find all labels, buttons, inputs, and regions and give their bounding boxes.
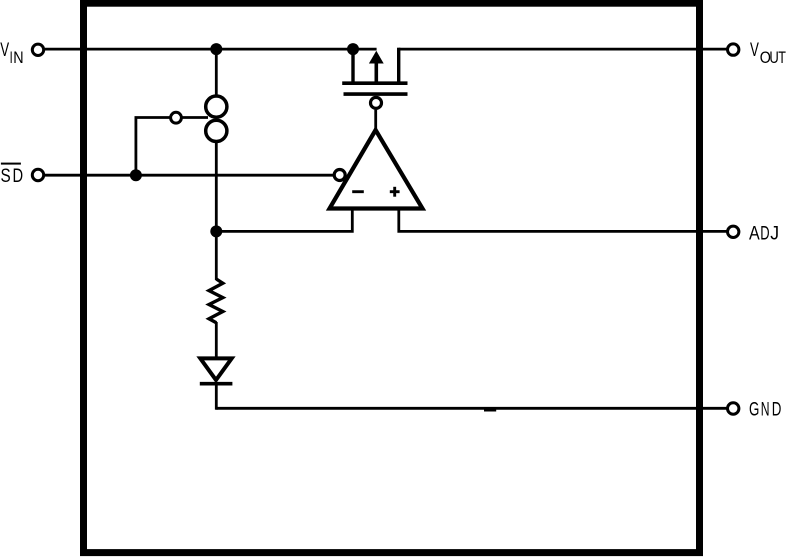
label VIN bbox=[0, 39, 23, 68]
bubble: current source control input bbox=[171, 112, 182, 123]
junction: pass transistor source on VIN rail bbox=[347, 43, 359, 55]
wire: op-amp non-inverting input to ADJ bbox=[399, 209, 728, 231]
resistor R1 bbox=[209, 279, 223, 323]
svg-text:N: N bbox=[761, 399, 770, 421]
terminal SD bbox=[32, 169, 43, 180]
svg-text:V: V bbox=[0, 39, 10, 61]
bubble: Q1 gate bbox=[371, 97, 382, 108]
junction: SD to current-source control branch bbox=[130, 169, 142, 181]
svg-text:N: N bbox=[13, 49, 23, 67]
label VOUT bbox=[750, 39, 786, 68]
IC boundary box bbox=[84, 3, 700, 552]
Q1 channel bar bbox=[342, 81, 407, 85]
Q1 gate bar bbox=[344, 92, 408, 96]
wire: current source control from SD branch bbox=[136, 118, 170, 176]
wire SD rail bbox=[45, 174, 333, 177]
minus sign bbox=[352, 190, 364, 193]
terminal ADJ bbox=[728, 226, 739, 237]
wire: bubble to current source bbox=[183, 116, 209, 119]
svg-text:D: D bbox=[772, 398, 782, 420]
wire: op-amp output to gate bbox=[374, 110, 377, 131]
Q1 right terminal bbox=[397, 48, 400, 83]
wire overlap notch on GND rail bbox=[484, 409, 496, 412]
wire: diode to GND rail bbox=[215, 384, 218, 410]
op-amp U1 (error amplifier) bbox=[330, 130, 423, 209]
PMOS pass transistor Q1 bbox=[342, 48, 407, 94]
svg-text:G: G bbox=[749, 398, 759, 420]
svg-text:D: D bbox=[13, 164, 24, 187]
svg-text:D: D bbox=[760, 222, 769, 244]
wire: feedback node to op-amp inverting input bbox=[216, 209, 352, 231]
label SD with overline bbox=[0, 163, 23, 187]
svg-text:U: U bbox=[769, 50, 778, 68]
junction: VIN to current-source branch bbox=[210, 43, 222, 55]
wire: current source down to feedback node bbox=[215, 142, 218, 232]
junction: feedback node bbox=[210, 225, 222, 237]
wire: feedback node down to resistor bbox=[215, 231, 218, 280]
current source I1 (current mirror circles) bbox=[206, 96, 227, 142]
diode D1 (bandgap reference) bbox=[200, 358, 233, 383]
svg-text:S: S bbox=[0, 164, 10, 186]
svg-text:V: V bbox=[750, 39, 760, 61]
svg-text:T: T bbox=[778, 49, 786, 67]
wire VIN rail bbox=[45, 48, 377, 51]
wire VOUT rail bbox=[399, 48, 728, 51]
wire GND rail bbox=[216, 407, 727, 410]
D1 cathode bar bbox=[200, 382, 233, 386]
terminal VIN bbox=[32, 44, 43, 55]
wire: VIN junction down to current source bbox=[215, 49, 218, 96]
label GND bbox=[749, 398, 781, 420]
Q1 left terminal bbox=[351, 49, 354, 83]
terminal GND bbox=[728, 403, 739, 414]
svg-text:I: I bbox=[10, 48, 13, 67]
plus sign bbox=[390, 190, 400, 193]
svg-text:J: J bbox=[770, 222, 779, 244]
svg-text:A: A bbox=[749, 222, 760, 244]
label ADJ bbox=[749, 222, 779, 245]
wire: resistor to diode bbox=[215, 322, 218, 358]
terminal VOUT bbox=[728, 44, 739, 55]
bubble: op-amp inverting input bbox=[334, 170, 345, 181]
Q1 body arrow bbox=[374, 61, 378, 83]
